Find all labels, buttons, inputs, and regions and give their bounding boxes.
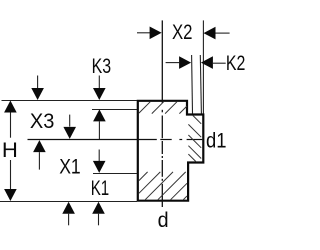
- dimension K1 lower arrow: [92, 202, 105, 214]
- X2 right extension line (branch face plane): [202, 20, 204, 113]
- dimension K3 upper arrow tail: [98, 76, 100, 89]
- dimension H top arrow: [4, 101, 17, 113]
- bottom face extension line: [0, 201, 137, 203]
- dimension H line upper segment: [10, 113, 12, 138]
- K3 socket depth extension line: [92, 109, 137, 111]
- dimension K2 right leader line: [213, 62, 226, 64]
- dimension H bottom arrow: [4, 189, 17, 201]
- dimension K1 upper arrow: [93, 161, 106, 173]
- centerline of branch d1 (horizontal dash-dot): [28, 139, 203, 141]
- dimension X2 left leader line: [137, 32, 150, 34]
- dimension K1 upper arrow tail: [98, 150, 100, 162]
- dimension X3 upper arrow: [31, 88, 44, 100]
- svg-text:H: H: [2, 138, 18, 162]
- svg-text:X1: X1: [59, 155, 80, 179]
- svg-text:d: d: [158, 208, 169, 232]
- hatching of top socket wall: [139, 102, 187, 114]
- dimension X2 left arrow: [150, 27, 162, 40]
- dimension K1 lower arrow tail: [98, 214, 100, 226]
- dimension X1 upper arrow tail: [38, 152, 40, 170]
- dimension X1 lower arrow: [62, 202, 75, 214]
- dimension K3 lower arrow: [93, 109, 106, 121]
- svg-text:X3: X3: [30, 109, 55, 133]
- hatching of bottom socket wall: [139, 172, 187, 200]
- hatching of branch collar wall: [188, 116, 201, 162]
- svg-text:X2: X2: [172, 20, 193, 44]
- dimension X3 lower arrow: [63, 127, 76, 139]
- svg-text:K1: K1: [91, 176, 110, 200]
- dimension K2 right arrow: [201, 56, 213, 69]
- centerline of main pipe d (vertical dash-dot): [161, 20, 163, 207]
- dimension K2 left leader line: [166, 62, 180, 64]
- top face extension line: [2, 100, 138, 102]
- svg-text:K2: K2: [226, 51, 246, 75]
- branch socket extension line left (slanted 88.5 deg): [191, 55, 194, 114]
- dimension X2 right leader line: [216, 32, 230, 34]
- dimension X1 lower arrow tail: [68, 214, 70, 226]
- branch socket extension line right (slanted 88.5 deg): [200, 55, 201, 114]
- svg-text:d1: d1: [206, 129, 227, 153]
- dimension X2 right arrow: [204, 27, 216, 40]
- dimension K3 upper arrow: [93, 88, 106, 100]
- dimension X3 upper arrow tail: [37, 76, 39, 89]
- dimension X3 lower arrow tail: [69, 115, 71, 127]
- fitting body outline (main pipe with side branch collar): [138, 101, 204, 201]
- dimension K2 left arrow: [179, 56, 191, 69]
- svg-text:K3: K3: [92, 54, 112, 78]
- dimension X1 upper arrow: [33, 140, 46, 152]
- dimension H line lower segment: [10, 160, 12, 189]
- dimension K3 lower arrow tail: [98, 121, 100, 139]
- K1 socket depth extension line: [93, 173, 137, 175]
